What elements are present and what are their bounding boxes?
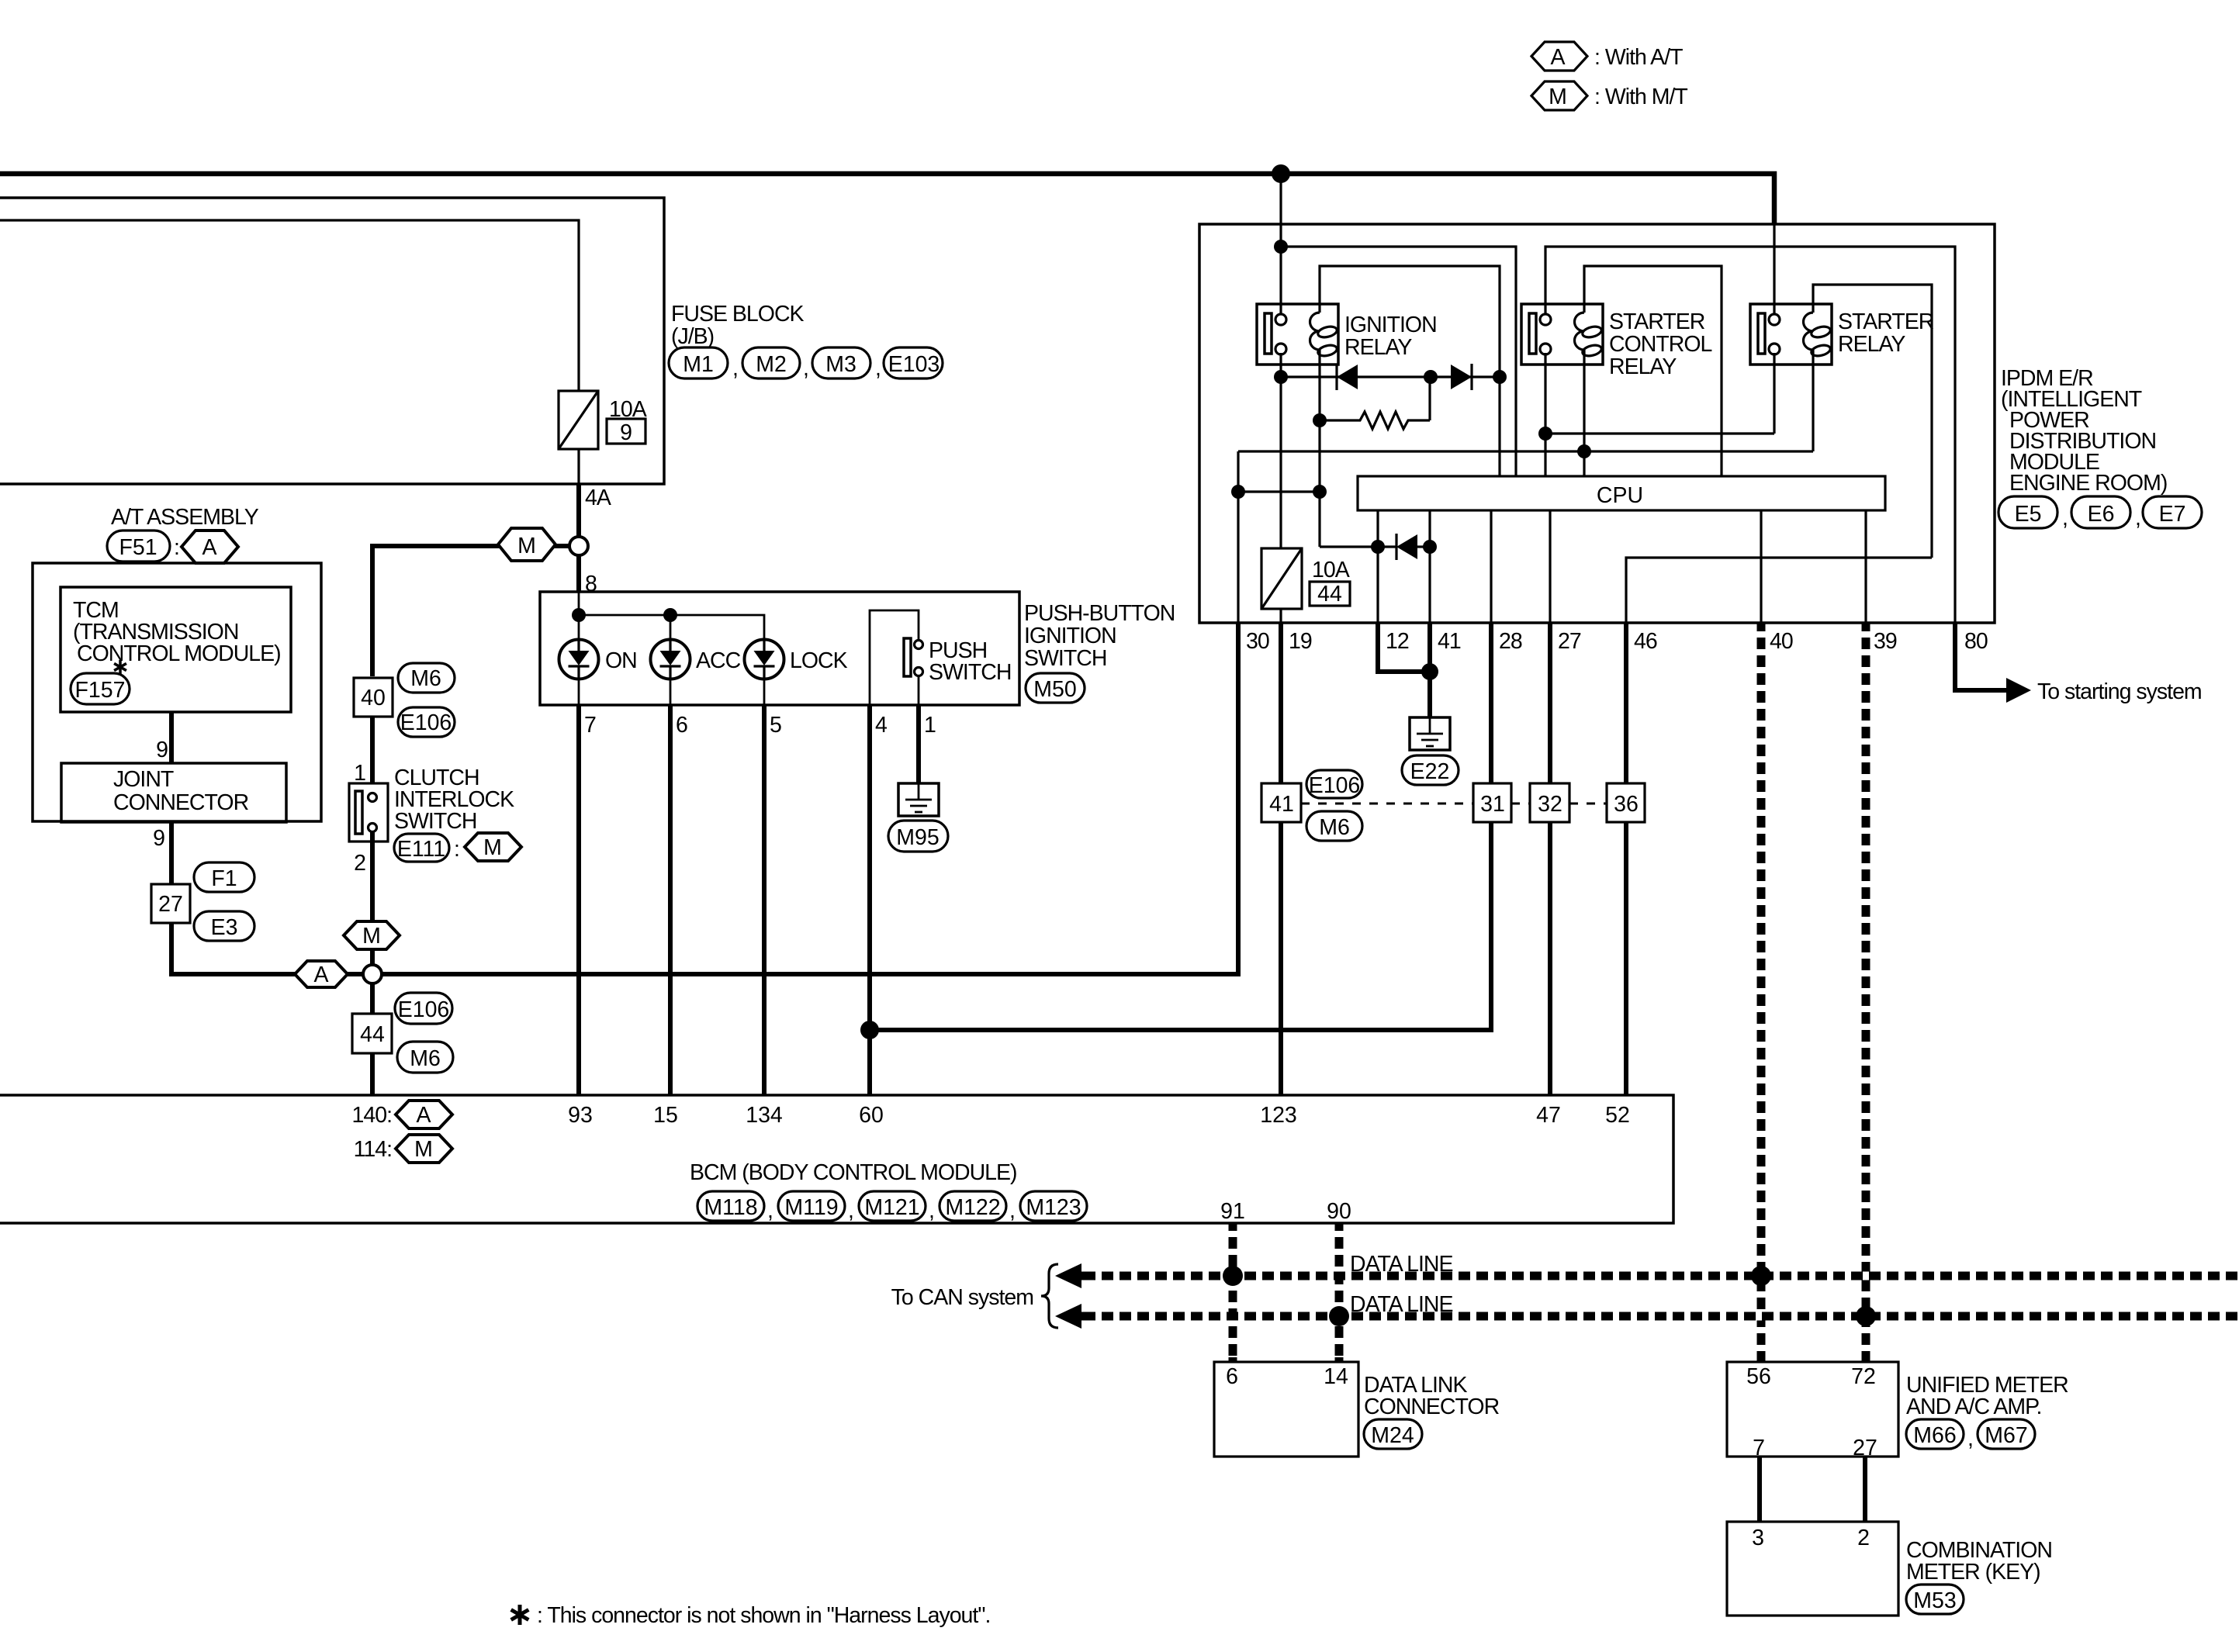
- svg-text:RELAY: RELAY: [1609, 354, 1677, 379]
- svg-text:LOCK: LOCK: [790, 648, 848, 673]
- label DATA LINK CONNECTOR: [1364, 1373, 1500, 1419]
- connector oval F1: [194, 862, 254, 892]
- svg-text:,: ,: [929, 1198, 934, 1223]
- svg-text:91: 91: [1220, 1199, 1245, 1224]
- svg-text:,: ,: [803, 356, 808, 381]
- svg-text:M67: M67: [1985, 1423, 2027, 1448]
- wire pin 39 data line (dashed): [1862, 622, 1870, 1362]
- node dot 40/data line: [1751, 1266, 1771, 1286]
- svg-text:7: 7: [584, 713, 596, 738]
- wire ignition coil return: [1318, 365, 1320, 547]
- wire joint connector pin 9 down: [171, 822, 363, 974]
- svg-text:E6: E6: [2088, 502, 2115, 527]
- starter relay box: [1750, 304, 1832, 365]
- connector oval M53: [1906, 1585, 1964, 1614]
- wire pin 28 to push switch pin 4 wire: [869, 622, 1491, 1030]
- footnote: [511, 1603, 991, 1628]
- connector oval M2: [742, 347, 808, 381]
- svg-text:: With A/T: : With A/T: [1594, 45, 1683, 70]
- svg-text:IGNITION: IGNITION: [1024, 624, 1116, 648]
- wire pin 30 vertical: [1237, 451, 1239, 622]
- svg-text:M3: M3: [825, 352, 856, 377]
- connector oval E7: [2143, 496, 2202, 528]
- svg-text:,: ,: [1009, 1198, 1015, 1223]
- TCM outer box: [33, 563, 321, 821]
- svg-text:F51: F51: [119, 535, 157, 560]
- svg-text:14: 14: [1324, 1364, 1348, 1389]
- hexagon M on wire: [498, 528, 555, 561]
- svg-text:1: 1: [354, 761, 365, 786]
- ignition relay contact: [1265, 313, 1286, 354]
- svg-text:DATA LINE: DATA LINE: [1350, 1252, 1452, 1277]
- wire CPU pin40: [1760, 510, 1762, 622]
- connector oval E22: [1402, 755, 1459, 785]
- wire ignition relay coil top frame: [1320, 266, 1500, 476]
- svg-text:,: ,: [2062, 506, 2068, 531]
- svg-text:32: 32: [1538, 792, 1562, 817]
- label TCM (TRANSMISSION CONTROL MODULE): [73, 598, 281, 666]
- svg-text:CPU: CPU: [1597, 483, 1643, 508]
- svg-text:FUSE BLOCK: FUSE BLOCK: [671, 302, 805, 327]
- svg-text:STARTER: STARTER: [1609, 309, 1705, 334]
- svg-text:,: ,: [848, 1198, 853, 1223]
- wire clutch switch pin 2 to junction: [370, 832, 375, 965]
- connector oval F157: [71, 673, 130, 704]
- svg-text:,: ,: [875, 356, 881, 381]
- svg-text:5: 5: [770, 713, 781, 738]
- label IPDM E/R block: [2001, 366, 2167, 496]
- wire pin 4 to BCM 60: [867, 705, 872, 1095]
- svg-text:6: 6: [676, 713, 687, 738]
- connector oval M123: [1020, 1191, 1087, 1221]
- wire resistor up to diode mid: [1428, 377, 1431, 420]
- LED indicator ACC: [651, 640, 690, 679]
- svg-text:M: M: [1549, 85, 1567, 109]
- svg-text:80: 80: [1964, 629, 1988, 654]
- svg-text:,: ,: [2135, 506, 2140, 531]
- connector pass box 41: [1261, 783, 1301, 822]
- connector oval M121: [859, 1191, 934, 1223]
- svg-text:M119: M119: [784, 1195, 838, 1220]
- svg-text:27: 27: [1558, 629, 1581, 654]
- wire M-branch horizontal to clutch chain: [372, 546, 569, 676]
- svg-text:M66: M66: [1913, 1423, 1956, 1448]
- connector oval E5: [1998, 496, 2068, 531]
- svg-text:,: ,: [767, 1198, 773, 1223]
- svg-text:E22: E22: [1410, 759, 1450, 784]
- svg-text:E106: E106: [400, 710, 452, 735]
- svg-text:E106: E106: [1309, 773, 1361, 798]
- connector oval M6 (lower): [397, 1042, 453, 1073]
- asterisk footnote mark: [114, 660, 126, 674]
- node dot contact/diode: [1274, 370, 1288, 384]
- svg-text:52: 52: [1605, 1103, 1630, 1128]
- svg-text:6: 6: [1226, 1364, 1238, 1389]
- svg-text:M6: M6: [1319, 815, 1350, 840]
- ignition relay box: [1257, 304, 1338, 365]
- svg-text:SWITCH: SWITCH: [929, 660, 1011, 685]
- wire 8 into push-button ignition switch: [576, 555, 581, 592]
- svg-text:27: 27: [158, 892, 183, 917]
- LED indicator ON: [559, 640, 599, 679]
- wire SC contact bottom to CPU: [1544, 353, 1546, 476]
- svg-text:E106: E106: [398, 997, 450, 1022]
- clutch interlock switch E111: [349, 783, 388, 842]
- wire pin 12 jog: [1378, 622, 1430, 672]
- wire pin 46 to BCM 52: [1624, 622, 1628, 1095]
- svg-text:30: 30: [1246, 629, 1269, 654]
- connector oval E111: [394, 834, 459, 862]
- wire CPU pin28: [1490, 510, 1492, 622]
- push switch symbol: [870, 610, 1011, 705]
- svg-text:,: ,: [1967, 1426, 1973, 1451]
- diode D2 (points right): [1451, 364, 1472, 390]
- node dot 91/data line: [1223, 1266, 1243, 1286]
- svg-text:44: 44: [360, 1022, 385, 1047]
- connector oval E6: [2071, 496, 2140, 531]
- wire pin 19 to BCM 123: [1279, 622, 1283, 1095]
- svg-text:M6: M6: [410, 1046, 441, 1071]
- node dot at ACC feed: [663, 608, 677, 622]
- wire relay return rail y582: [1238, 450, 1813, 452]
- wire starter relay contact feed from bus: [1773, 225, 1775, 313]
- connector oval M66: [1906, 1419, 1973, 1451]
- resistor: [1320, 412, 1430, 429]
- svg-text:RELAY: RELAY: [1344, 335, 1412, 360]
- label FUSE BLOCK (J/B): [671, 302, 805, 349]
- pin 114 with hexagon M: [354, 1135, 452, 1163]
- node dot at ON feed: [572, 608, 586, 622]
- svg-text:3: 3: [1752, 1526, 1764, 1550]
- svg-text:M: M: [414, 1137, 433, 1162]
- svg-text:47: 47: [1536, 1103, 1561, 1128]
- pin labels IPDM bottom: [1246, 629, 1988, 654]
- diode D3 (points left): [1378, 534, 1430, 560]
- svg-text:E7: E7: [2159, 502, 2186, 527]
- wire pin 27 to BCM 47: [1548, 622, 1552, 1095]
- svg-text:M123: M123: [1026, 1195, 1081, 1220]
- svg-text:M118: M118: [704, 1195, 757, 1220]
- fuse 10A #44: [1261, 548, 1350, 609]
- svg-text:CONNECTOR: CONNECTOR: [113, 790, 249, 815]
- connector oval E106 (lower): [395, 993, 452, 1024]
- svg-text:41: 41: [1438, 629, 1461, 654]
- svg-text:10A: 10A: [1312, 558, 1350, 582]
- wire SC contact top to pin 80 rail: [1545, 247, 1955, 622]
- diode D1 (points left): [1337, 364, 1358, 390]
- svg-text::: :: [174, 535, 179, 560]
- node dot diode mid: [1424, 370, 1438, 384]
- svg-text:PUSH-BUTTON: PUSH-BUTTON: [1024, 601, 1175, 626]
- svg-text:M24: M24: [1371, 1423, 1414, 1448]
- starter control relay coil: [1575, 304, 1603, 365]
- wire starter relay contact output: [1773, 353, 1775, 434]
- connector oval M3: [812, 347, 881, 381]
- node dot +B rail: [1274, 240, 1288, 254]
- svg-text:1: 1: [924, 713, 936, 738]
- starter control relay box: [1521, 304, 1603, 365]
- svg-text:JOINT: JOINT: [113, 767, 174, 792]
- label STARTER CONTROL RELAY: [1609, 309, 1711, 379]
- svg-text:19: 19: [1289, 629, 1312, 654]
- push-button ignition switch box M50: [540, 592, 1019, 705]
- wire SC coil return to CPU: [1583, 365, 1585, 476]
- wire BCM 90 to DLC 14 (dashed): [1327, 1199, 1351, 1362]
- wire CAN data line L (lower): [1055, 1292, 2239, 1329]
- starter relay contact: [1758, 313, 1780, 354]
- wire pin 7 to BCM 93: [576, 705, 581, 1095]
- connector oval E103: [884, 347, 943, 378]
- node dot pins 12/41: [1421, 663, 1438, 680]
- svg-text:40: 40: [1770, 629, 1793, 654]
- node dot on pin30 wire: [1231, 485, 1245, 499]
- wire pin 6 to BCM 15: [668, 705, 673, 1095]
- hexagon M (clutch switch): [465, 833, 521, 861]
- svg-text:RELAY: RELAY: [1838, 332, 1905, 357]
- svg-text:40: 40: [361, 686, 386, 710]
- svg-text:BCM (BODY CONTROL MODULE): BCM (BODY CONTROL MODULE): [690, 1160, 1017, 1185]
- wire pin 41 to ground E22: [1427, 622, 1432, 717]
- svg-text:M95: M95: [896, 825, 939, 850]
- node dot 39/data line: [1856, 1306, 1876, 1326]
- label To CAN system with brace: [891, 1264, 1058, 1328]
- wire starter relay coil return: [1812, 365, 1814, 451]
- svg-text:A: A: [202, 535, 216, 560]
- svg-text:IGNITION: IGNITION: [1344, 313, 1437, 337]
- node dot on pin4 wire: [860, 1021, 879, 1039]
- svg-text:CONTROL: CONTROL: [1609, 332, 1711, 357]
- wire starter output rail y559: [1545, 432, 1774, 434]
- wire CPU pin12: [1376, 510, 1379, 622]
- wire LED outputs to box edge: [578, 679, 580, 706]
- svg-text:M122: M122: [945, 1195, 1000, 1220]
- svg-text:A: A: [1550, 45, 1565, 70]
- hexagon A on TCM wire: [295, 961, 348, 987]
- svg-text:31: 31: [1480, 792, 1505, 817]
- dashed connector link line: [1301, 803, 1607, 805]
- connector oval E106 (row): [1306, 770, 1362, 798]
- svg-text:90: 90: [1327, 1199, 1351, 1224]
- svg-text:SWITCH: SWITCH: [1024, 646, 1106, 671]
- wire 4A fuse output: [576, 484, 581, 537]
- node junction on bus at ignition relay feed: [1272, 164, 1290, 183]
- connector pass box 32: [1530, 783, 1569, 822]
- svg-text:CONTROL MODULE): CONTROL MODULE): [77, 641, 281, 666]
- svg-text:M: M: [362, 924, 381, 949]
- BCM (body control module) box: [0, 1095, 1673, 1223]
- node dot coil/resistor: [1313, 413, 1327, 427]
- svg-text:2: 2: [1857, 1526, 1870, 1550]
- node dot diode row right: [1493, 370, 1507, 384]
- svg-text:4: 4: [875, 713, 888, 738]
- unified meter and A/C amp box: [1727, 1362, 1898, 1460]
- svg-text:To CAN system: To CAN system: [891, 1285, 1033, 1310]
- ground M95: [898, 783, 939, 816]
- connector oval M67: [1978, 1419, 2035, 1449]
- wire ignition contact output (pin 19 / BCM 123): [1279, 353, 1282, 622]
- svg-text:AND A/C AMP.: AND A/C AMP.: [1906, 1395, 2041, 1419]
- legend hexagon M (With M/T): [1531, 81, 1687, 110]
- connector oval M6 (upper): [398, 663, 455, 693]
- hexagon A (A/T assembly): [182, 531, 238, 563]
- node dot SC coil / y582: [1577, 444, 1591, 458]
- starter relay coil: [1804, 304, 1832, 365]
- svg-text:140:: 140:: [352, 1103, 392, 1128]
- svg-text:41: 41: [1269, 792, 1294, 817]
- IPDM E/R outer box: [1199, 224, 1995, 623]
- wire inner feed to fuse 9: [0, 220, 579, 391]
- svg-text:123: 123: [1260, 1103, 1297, 1128]
- svg-text:60: 60: [859, 1103, 884, 1128]
- fuse 10A #9: [559, 391, 647, 484]
- connector oval M118: [697, 1191, 773, 1223]
- starter control relay coil frame: [1584, 266, 1722, 476]
- wire box40 to clutch switch pin 1: [370, 717, 375, 793]
- combination meter box M53: [1727, 1522, 1898, 1616]
- svg-text:9: 9: [156, 738, 168, 762]
- data link connector box M24: [1214, 1362, 1358, 1457]
- svg-text:46: 46: [1634, 629, 1657, 654]
- svg-text:2: 2: [354, 851, 365, 876]
- connector oval M1: [669, 347, 738, 381]
- wire CAN data line H (upper): [1055, 1252, 2239, 1288]
- label STARTER RELAY: [1838, 309, 1934, 357]
- svg-text:E3: E3: [211, 915, 238, 940]
- svg-text:ACC: ACC: [696, 648, 741, 673]
- hexagon M above junction: [344, 921, 400, 949]
- svg-text:36: 36: [1614, 792, 1639, 817]
- svg-text:M6: M6: [410, 666, 441, 691]
- svg-text:A: A: [313, 963, 328, 987]
- svg-text:M1: M1: [683, 352, 714, 377]
- svg-text:F1: F1: [211, 866, 237, 891]
- svg-text:134: 134: [746, 1103, 783, 1128]
- connector oval M119: [778, 1191, 853, 1223]
- svg-text:72: 72: [1851, 1364, 1876, 1389]
- wire internal LED feed rail: [578, 592, 580, 639]
- connector oval M122: [940, 1191, 1015, 1223]
- node dot 90/data line: [1329, 1306, 1349, 1326]
- svg-text:12: 12: [1386, 629, 1409, 654]
- svg-text:STARTER: STARTER: [1838, 309, 1934, 334]
- svg-text:4A: 4A: [585, 486, 611, 510]
- wire coil corner to diode line y705: [1320, 545, 1378, 548]
- connector oval F51: [107, 531, 179, 562]
- svg-text:44: 44: [1317, 582, 1342, 607]
- connector pass box 36: [1607, 783, 1645, 822]
- TCM inner box: [61, 587, 291, 712]
- svg-text:DATA LINE: DATA LINE: [1350, 1292, 1452, 1317]
- svg-text:9: 9: [153, 826, 164, 851]
- connector pass box 27: [151, 884, 190, 923]
- wire pin 46 path: [1626, 558, 1932, 622]
- svg-text:E111: E111: [397, 837, 445, 862]
- CPU box: [1358, 476, 1885, 510]
- svg-text:15: 15: [653, 1103, 678, 1128]
- node dot SC contact / y559: [1538, 427, 1552, 441]
- wire pin 80 to starting system: [1955, 622, 2009, 690]
- svg-text:56: 56: [1746, 1364, 1771, 1389]
- connector oval M95: [888, 821, 948, 852]
- wire pin 40 data line (dashed): [1757, 622, 1766, 1362]
- node open junction at 4A/M: [569, 537, 588, 555]
- node open junction A/M: [363, 965, 382, 983]
- svg-text:E5: E5: [2015, 502, 2042, 527]
- pin labels BCM top: [568, 1103, 1630, 1128]
- svg-text:M: M: [483, 835, 502, 860]
- svg-text:A/T ASSEMBLY: A/T ASSEMBLY: [111, 505, 259, 530]
- label UNIFIED METER AND A/C AMP.: [1906, 1373, 2068, 1419]
- svg-text:9: 9: [620, 420, 632, 445]
- svg-text:ON: ON: [605, 648, 637, 673]
- wire pin 1 to ground M95: [916, 705, 921, 783]
- svg-text:: With M/T: : With M/T: [1594, 85, 1687, 109]
- wire link to pin 30: [1238, 490, 1320, 492]
- wire BCM 91 to DLC 6 (dashed): [1220, 1199, 1245, 1362]
- connector oval M6 (row): [1306, 811, 1362, 841]
- label CLUTCH INTERLOCK SWITCH: [394, 766, 514, 834]
- LED indicator LOCK: [745, 640, 784, 679]
- pin 140 with hexagon A: [352, 1101, 452, 1128]
- svg-text:To starting system: To starting system: [2037, 679, 2202, 704]
- svg-text:CONNECTOR: CONNECTOR: [1364, 1395, 1500, 1419]
- connector pass box 31: [1473, 783, 1511, 822]
- legend hexagon A (With A/T): [1531, 42, 1683, 71]
- node dot coil/pin30 link: [1313, 485, 1327, 499]
- svg-text:28: 28: [1499, 629, 1522, 654]
- svg-text:114:: 114:: [354, 1137, 392, 1162]
- svg-text:M2: M2: [756, 352, 787, 377]
- wire junction down to BCM 140/114: [370, 983, 375, 1095]
- connector oval M24: [1364, 1419, 1422, 1449]
- node dot D3 left: [1371, 540, 1385, 554]
- node dot D3 right: [1423, 540, 1437, 554]
- svg-text:A: A: [416, 1103, 431, 1128]
- svg-text:M121: M121: [864, 1195, 919, 1220]
- wire bus tap down to IPDM ignition relay: [1279, 174, 1282, 247]
- svg-text:(J/B): (J/B): [671, 324, 714, 349]
- wire TCM pin 9 to joint connector: [169, 712, 174, 763]
- ground E22: [1410, 717, 1450, 750]
- fuse block (J/B) box: [0, 198, 664, 484]
- svg-text:M: M: [517, 534, 536, 558]
- wire CPU pin41: [1428, 510, 1431, 622]
- label PUSH-BUTTON IGNITION SWITCH: [1024, 601, 1175, 671]
- svg-text:ENGINE ROOM): ENGINE ROOM): [2009, 471, 2167, 496]
- starter relay coil frame: [1813, 285, 1932, 558]
- svg-text:M53: M53: [1913, 1588, 1956, 1613]
- wire UM 27 to meter 2: [1863, 1457, 1867, 1522]
- svg-text:F157: F157: [75, 678, 126, 703]
- wire CPU pin27: [1549, 510, 1551, 622]
- wire pin 30 to A/M junction: [382, 622, 1238, 974]
- wire +B internal rail to CPU: [1281, 247, 1516, 476]
- svg-text:METER (KEY): METER (KEY): [1906, 1560, 2040, 1585]
- wire diode row y486: [1281, 375, 1500, 378]
- joint connector box: [61, 763, 286, 822]
- starter control relay contact: [1529, 313, 1551, 354]
- label IGNITION RELAY: [1344, 313, 1437, 360]
- connector pass box 40 on clutch wire: [354, 678, 393, 717]
- svg-text::: :: [454, 837, 459, 862]
- label COMBINATION METER (KEY): [1906, 1538, 2052, 1585]
- wire CPU pin39: [1864, 510, 1867, 622]
- wire battery bus (top horizontal): [0, 174, 1774, 225]
- svg-text:93: 93: [568, 1103, 593, 1128]
- connector oval M50: [1026, 673, 1085, 703]
- connector oval E3: [194, 911, 254, 941]
- svg-text:,: ,: [732, 356, 738, 381]
